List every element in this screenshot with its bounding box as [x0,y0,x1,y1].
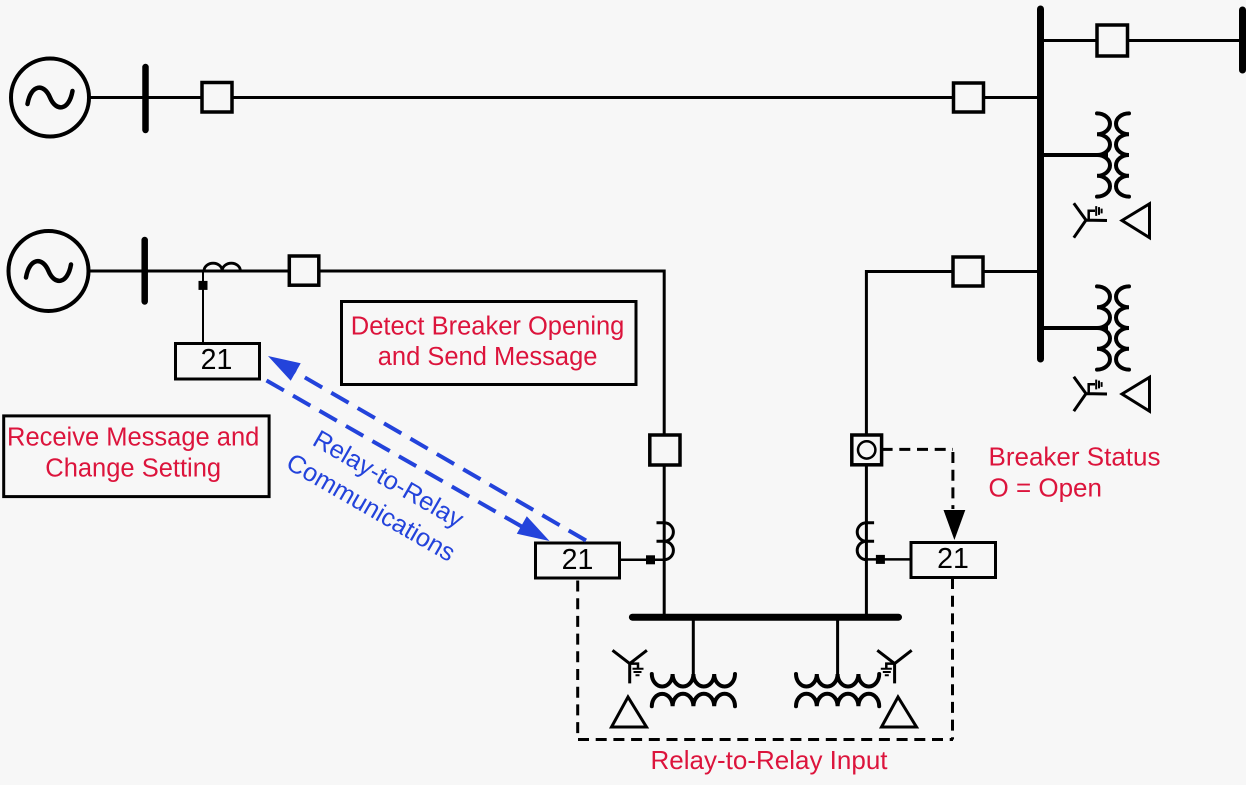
svg-text:21: 21 [201,344,233,376]
breaker B5 [953,257,983,286]
label box: Receive Message and Change Setting [4,416,269,497]
wire B4 east then south (feeder 1) [319,271,664,617]
bus at G1 [142,67,149,130]
blue arrowhead B [517,516,550,541]
svg-text:21: 21 [562,544,594,576]
bottom bus [632,614,898,621]
breaker B6 on feeder 1 [650,435,680,465]
wire B2 to main bus [984,96,1041,99]
wire CT node to R3 [866,558,911,561]
relay 21 R1 [176,344,260,380]
CT lead wire [202,271,204,342]
blue arrowhead A [268,356,301,381]
T1 wye-ground symbol [1074,203,1107,237]
main right bus [1037,9,1044,359]
transformer T4 windings [796,674,879,706]
svg-text:21: 21 [937,543,969,575]
generator G2 [9,231,89,311]
breaker B7 with O [852,435,882,465]
svg-text:Breaker Status: Breaker Status [989,442,1161,472]
bus at G2 [141,240,148,302]
wire right feeder (bus to south) [866,272,1040,618]
CT on feeder 2 [857,523,874,560]
breaker status arrowhead [944,510,966,540]
CT on feeder 1 [657,523,674,560]
breaker B3 [1097,25,1128,56]
wire bus to transformer T3 [692,617,695,674]
node square at R2 [646,555,655,564]
label: Breaker Status O = Open [989,442,1161,503]
wire G1 to breaker [89,96,202,99]
T3 delta symbol [612,697,647,727]
wire bus to transformer T2 [1041,326,1109,330]
relay 21 R3 [911,543,996,578]
breaker B2 [954,83,984,112]
breaker B4 [289,256,319,285]
wire G2 to breaker B4 [89,270,290,273]
wire bus to breaker B3 [1041,39,1098,42]
blue label Relay-to-Relay Communications [282,425,469,567]
svg-text:Relay-to-Relay Input: Relay-to-Relay Input [651,745,889,775]
dashed breaker status wire from B7 [882,449,953,509]
CT at G2 line [204,263,240,271]
T4 wye-ground symbol [877,650,911,683]
wire bus to transformer T1 [1041,153,1109,157]
svg-text:and Send Message: and Send Message [378,343,598,371]
svg-text:Change Setting: Change Setting [45,455,221,483]
line terminal bar [1239,10,1246,70]
wire B3 to line terminal [1128,39,1240,42]
generator G1 [11,59,89,137]
wire R2 to CT node [620,559,665,562]
transformer T3 windings [652,674,735,706]
svg-text:Receive Message and: Receive Message and [7,424,259,452]
CT node square [199,281,208,290]
blue comm dashed line A [286,367,586,541]
label box: Detect Breaker Opening and Send Message [342,302,637,385]
transformer T1 windings [1097,113,1129,196]
T2 wye-ground symbol [1074,377,1107,411]
blue comm dashed line B [267,381,541,538]
breaker B1 [202,83,232,113]
T4 delta symbol [882,697,917,727]
svg-text:O = Open: O = Open [989,473,1102,503]
node square at R3 [876,555,885,564]
relay 21 R2 [536,543,620,578]
wire bus to transformer T4 [836,617,839,674]
T1 delta symbol [1122,204,1150,238]
transformer T2 windings [1097,286,1129,369]
T2 delta symbol [1122,377,1150,411]
T3 wye-ground symbol [613,650,647,683]
svg-text:Detect Breaker Opening: Detect Breaker Opening [351,313,625,341]
dashed relay-to-relay input loop [578,578,953,740]
wire B1 to B2 [232,96,954,99]
